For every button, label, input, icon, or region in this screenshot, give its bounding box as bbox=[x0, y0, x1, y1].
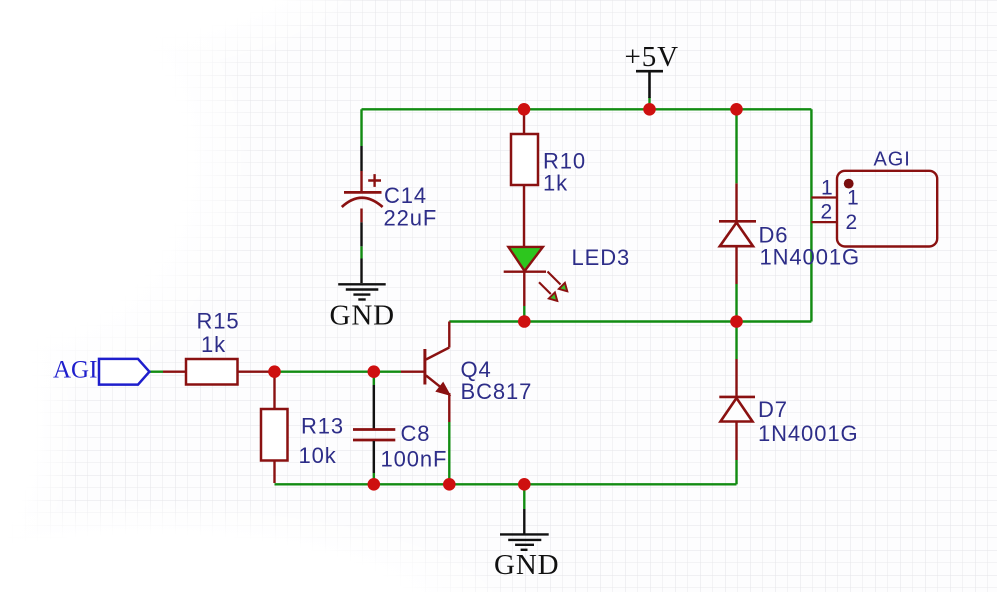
LED LED3 cathode pin bbox=[523, 272, 525, 306]
ground GND top bbox=[330, 259, 396, 332]
connector AGI pin 2 stub bbox=[811, 221, 837, 223]
connector AGI (header) bbox=[811, 149, 937, 247]
resistor R13 top pin bbox=[273, 372, 275, 409]
transistor Q4 collector diagonal bbox=[426, 348, 449, 360]
svg-text:C14: C14 bbox=[384, 183, 427, 208]
transistor Q4 emitter arrow bbox=[437, 383, 450, 395]
diode D7 triangle bbox=[721, 398, 753, 422]
junction D6 anode on top net bbox=[730, 103, 743, 116]
wire mid horizontal bbox=[449, 320, 811, 322]
diode D6 bbox=[719, 183, 860, 284]
svg-text:GND: GND bbox=[494, 549, 560, 581]
capacitor C14 bottom pin bbox=[360, 209, 362, 223]
junction D6/D7 on mid net bbox=[730, 315, 743, 328]
junction R10 top on +5V net bbox=[518, 103, 531, 116]
capacitor C14 plus sign bbox=[368, 174, 381, 187]
svg-text:1: 1 bbox=[847, 187, 860, 210]
junction LED3 cathode on mid net bbox=[518, 315, 531, 328]
wire D6 top bbox=[735, 109, 737, 183]
diode D7 cathode bar bbox=[719, 396, 755, 399]
diode D7 bottom pin bbox=[735, 422, 737, 461]
junction C8 top node bbox=[368, 365, 381, 378]
connector AGI pin 1 stub bbox=[811, 196, 837, 198]
svg-text:+5V: +5V bbox=[625, 41, 680, 73]
wire AGI port to R15 bbox=[149, 371, 163, 373]
wire +5V stub green bbox=[648, 97, 650, 109]
LED LED3 emission arrow 2 bbox=[539, 282, 551, 294]
ground bars (top GND) bbox=[338, 283, 386, 285]
wire top net +5V horizontal bbox=[362, 108, 812, 110]
diode D7 bbox=[719, 359, 858, 460]
wire C8 top stub bbox=[373, 372, 375, 385]
diode D6 top pin bbox=[735, 183, 737, 221]
wire bottom horizontal bbox=[275, 483, 737, 485]
svg-text:D7: D7 bbox=[758, 397, 788, 422]
svg-text:GND: GND bbox=[330, 300, 396, 332]
transistor Q4 base bar bbox=[423, 349, 426, 385]
capacitor C14 bbox=[342, 146, 437, 246]
power +5V symbol bbox=[625, 41, 680, 98]
svg-text:LED3: LED3 bbox=[572, 245, 631, 270]
svg-text:R15: R15 bbox=[197, 308, 240, 333]
svg-text:1N4001G: 1N4001G bbox=[760, 245, 860, 270]
junction +5V symbol on top net bbox=[643, 103, 656, 116]
resistor R10 bbox=[511, 110, 586, 247]
port AGI (left net flag) bbox=[53, 357, 149, 385]
junction R15/R13 node bbox=[268, 365, 281, 378]
capacitor C8 bottom pin bbox=[373, 441, 375, 473]
LED LED3 triangle bbox=[508, 247, 543, 271]
resistor R15 bbox=[163, 308, 269, 384]
junction GND symbol on bottom net bbox=[518, 478, 531, 491]
svg-text:R13: R13 bbox=[301, 414, 344, 439]
LED LED3 cathode bar bbox=[504, 271, 546, 273]
capacitor C14 top pin bbox=[360, 146, 362, 171]
wire C14 top vertical bbox=[360, 109, 362, 146]
wire GND2 stub green bbox=[523, 484, 525, 509]
resistor R13 body bbox=[261, 409, 288, 461]
port AGI flag shape bbox=[99, 359, 149, 385]
diode D6 bottom pin bbox=[735, 246, 737, 284]
capacitor C14 positive plate bbox=[344, 191, 382, 194]
resistor R15 right pin bbox=[238, 371, 270, 373]
ground pin (top GND) bbox=[360, 259, 362, 284]
diode D6 triangle bbox=[720, 223, 753, 247]
capacitor C8 bottom plate bbox=[353, 439, 395, 442]
svg-text:1k: 1k bbox=[201, 332, 226, 357]
diode D6 cathode bar bbox=[719, 220, 756, 223]
capacitor C8 bbox=[353, 385, 447, 473]
diode D7 top pin bbox=[735, 359, 737, 397]
svg-text:BC817: BC817 bbox=[461, 379, 533, 404]
resistor R13 bbox=[261, 372, 344, 483]
resistor R15 left pin bbox=[163, 371, 186, 373]
svg-text:100nF: 100nF bbox=[381, 447, 448, 472]
svg-text:C8: C8 bbox=[401, 421, 431, 446]
wire C8 bottom stub bbox=[373, 473, 375, 484]
wire LED to mid bbox=[523, 306, 525, 322]
wire C14 to GND stub bbox=[360, 246, 362, 258]
transistor Q4 collector pin bbox=[448, 322, 450, 348]
junction Q4 emitter on GND net bbox=[443, 478, 456, 491]
svg-text:22uF: 22uF bbox=[384, 206, 438, 231]
resistor R10 body bbox=[511, 134, 538, 185]
LED LED3 bbox=[504, 245, 630, 306]
svg-text:AGI: AGI bbox=[874, 149, 911, 171]
capacitor C8 top pin bbox=[373, 385, 375, 430]
LED LED3 emission arrow 1 bbox=[548, 272, 561, 285]
connector AGI pin-1 marker dot bbox=[844, 179, 854, 189]
svg-text:10k: 10k bbox=[299, 443, 337, 468]
wire D7 bottom bbox=[735, 460, 737, 484]
resistor R10 top pin bbox=[523, 110, 525, 134]
wire D6 bottom bbox=[735, 284, 737, 322]
power +5V pin bbox=[648, 71, 651, 98]
capacitor C8 top plate bbox=[353, 428, 395, 431]
wire Q4 emitter down bbox=[448, 422, 450, 484]
connector AGI body bbox=[837, 171, 937, 247]
resistor R10 bottom pin bbox=[523, 185, 525, 247]
transistor Q4 emitter pin bbox=[448, 393, 450, 422]
svg-text:AGI: AGI bbox=[53, 357, 97, 384]
power +5V bar bbox=[636, 70, 663, 73]
ground GND bottom bbox=[494, 509, 560, 581]
capacitor C14 curved plate bbox=[342, 198, 383, 207]
wire D7 top bbox=[735, 322, 737, 360]
svg-text:1: 1 bbox=[821, 177, 834, 200]
transistor Q4 bbox=[401, 322, 532, 423]
svg-text:2: 2 bbox=[821, 200, 834, 223]
resistor R15 body bbox=[186, 359, 238, 385]
svg-text:1k: 1k bbox=[543, 171, 568, 196]
svg-text:1N4001G: 1N4001G bbox=[758, 421, 858, 446]
resistor R13 bottom pin bbox=[273, 461, 275, 484]
svg-text:2: 2 bbox=[846, 211, 859, 234]
wire R15 to Q4 base bbox=[268, 371, 401, 373]
wire right vertical to connector bbox=[810, 109, 812, 321]
transistor Q4 base pin bbox=[401, 371, 424, 373]
ground pin (bottom GND) bbox=[523, 509, 525, 534]
ground bars (bottom GND) bbox=[500, 533, 549, 535]
junction C8 bottom on GND net bbox=[368, 478, 381, 491]
transistor Q4 emitter diagonal bbox=[426, 376, 447, 392]
